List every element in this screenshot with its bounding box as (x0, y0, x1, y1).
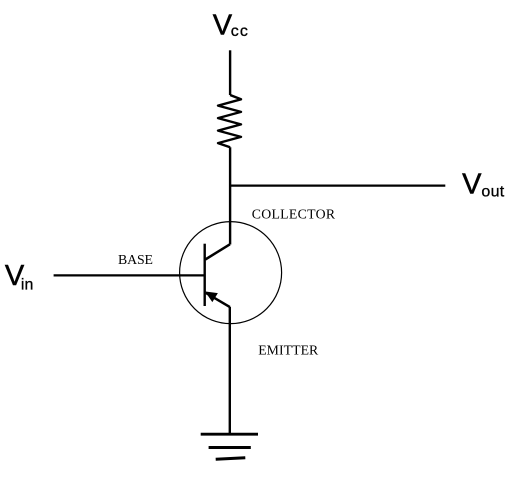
wire resistor bottom through output node to collector (229, 147, 231, 244)
ground bar 2 (209, 446, 251, 449)
wire Vcc to resistor top (229, 50, 231, 95)
ground symbol (201, 434, 258, 459)
svg-text:in: in (21, 276, 33, 293)
ground bar 3 (216, 458, 246, 459)
label Vin (input net) (5, 260, 33, 294)
svg-text:out: out (481, 183, 504, 200)
svg-text:EMITTER: EMITTER (258, 342, 319, 357)
collector lead (205, 244, 230, 259)
wire Vin to base (54, 274, 205, 276)
ground bar 1 (201, 433, 258, 436)
svg-text:BASE: BASE (118, 252, 153, 267)
wire output node to Vout (229, 184, 445, 186)
svg-text:V: V (462, 168, 482, 200)
wire emitter to ground (229, 307, 231, 434)
emitter lead (206, 293, 230, 307)
base bar (203, 244, 205, 306)
svg-text:COLLECTOR: COLLECTOR (252, 207, 336, 222)
transistor body circle (180, 222, 282, 324)
resistor R1 (collector load) (218, 95, 241, 147)
svg-text:V: V (213, 9, 233, 41)
label Vcc (supply net) (213, 9, 249, 41)
label Vout (output net) (462, 168, 505, 200)
svg-text:cc: cc (231, 23, 249, 40)
transistor Q1 (180, 222, 282, 324)
emitter arrow (206, 292, 216, 301)
